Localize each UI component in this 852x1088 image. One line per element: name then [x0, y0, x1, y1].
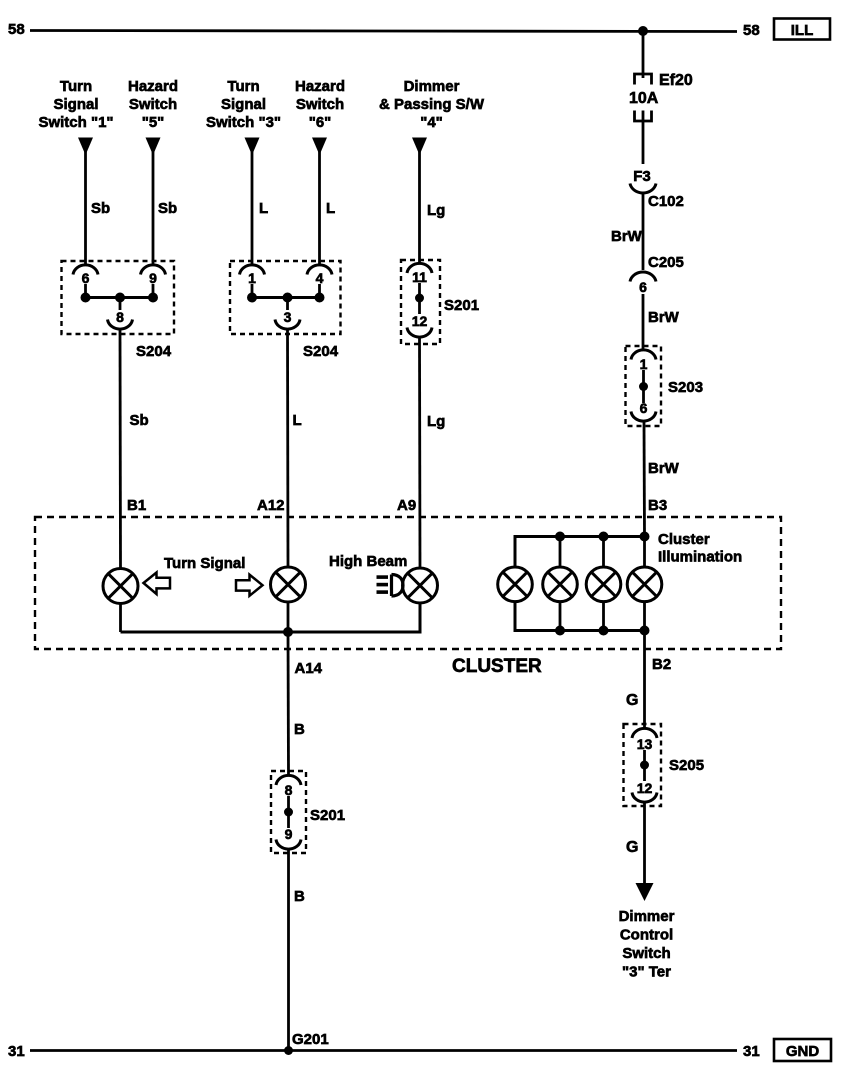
- svg-text:Control: Control: [620, 927, 673, 944]
- svg-text:6: 6: [82, 270, 90, 286]
- svg-text:A12: A12: [257, 497, 285, 514]
- wire bottom rail 31: [30, 1049, 737, 1052]
- svg-text:S204: S204: [136, 343, 172, 360]
- lamp illumination 4: [627, 567, 662, 602]
- svg-text:Switch: Switch: [129, 96, 177, 113]
- svg-text:Hazard: Hazard: [295, 78, 345, 95]
- svg-text:Turn: Turn: [227, 78, 259, 95]
- svg-text:C102: C102: [648, 193, 684, 210]
- svg-text:BrW: BrW: [648, 460, 680, 477]
- svg-text:12: 12: [412, 313, 428, 329]
- wire S205 to dimmer switch label G: [626, 804, 645, 887]
- svg-text:S205: S205: [669, 757, 704, 774]
- CLUSTER dashed box: [35, 517, 781, 649]
- junction A14: [283, 627, 293, 637]
- svg-text:1: 1: [248, 270, 256, 286]
- arrow into wire col1: [78, 138, 93, 156]
- svg-text:B1: B1: [127, 497, 146, 514]
- svg-text:31: 31: [743, 1043, 760, 1060]
- wire col2 label Sb: [153, 150, 177, 264]
- svg-text:31: 31: [8, 1043, 25, 1060]
- wire illumination bottom bus: [515, 602, 645, 631]
- header Turn Signal Switch 1: [38, 78, 113, 131]
- connector S204 right: [230, 261, 341, 360]
- label Cluster Illumination: [658, 531, 742, 566]
- junction dots top bus: [555, 532, 650, 542]
- svg-text:Sb: Sb: [91, 200, 110, 217]
- svg-text:G: G: [626, 839, 638, 856]
- svg-text:S204: S204: [303, 343, 339, 360]
- svg-text:G: G: [626, 692, 638, 709]
- svg-text:"3" Ter: "3" Ter: [622, 964, 671, 981]
- wire bottom link bus: [121, 603, 421, 632]
- svg-text:Illumination: Illumination: [658, 549, 742, 566]
- svg-text:F3: F3: [633, 168, 651, 185]
- svg-text:Sb: Sb: [130, 412, 149, 429]
- lamp high beam: [403, 568, 438, 603]
- connector C102 pin F3: [630, 168, 656, 193]
- wire S203 to cluster labels BrW B3: [644, 422, 680, 537]
- svg-text:Lg: Lg: [427, 202, 445, 219]
- wire col5 label Lg: [420, 150, 446, 264]
- wire B2 to S205 labels B2 G: [626, 631, 671, 729]
- svg-text:13: 13: [637, 736, 653, 752]
- header Hazard Switch 6: [295, 78, 345, 131]
- svg-text:Switch "3": Switch "3": [206, 114, 281, 131]
- icon high beam: [377, 575, 404, 597]
- svg-text:3: 3: [284, 309, 292, 325]
- svg-text:6: 6: [639, 279, 647, 295]
- svg-text:A9: A9: [397, 497, 416, 514]
- svg-text:"5": "5": [142, 114, 165, 131]
- svg-text:Turn Signal: Turn Signal: [164, 555, 245, 572]
- net GND box: [774, 1039, 831, 1061]
- svg-text:L: L: [293, 412, 302, 429]
- svg-text:58: 58: [8, 21, 25, 38]
- svg-text:Cluster: Cluster: [658, 531, 710, 548]
- wire col4 label L: [320, 150, 336, 264]
- junction on rail: [638, 26, 648, 36]
- arrow into wire col2: [146, 138, 161, 156]
- label Dimmer Control Switch 3 Ter: [619, 908, 675, 981]
- svg-text:B3: B3: [648, 497, 667, 514]
- svg-text:Signal: Signal: [53, 96, 98, 113]
- junction dots bottom bus: [555, 626, 650, 636]
- svg-text:Turn: Turn: [60, 78, 92, 95]
- svg-text:BrW: BrW: [611, 228, 643, 245]
- svg-text:Lg: Lg: [427, 413, 445, 430]
- arrow into wire col4: [312, 138, 327, 156]
- svg-text:Hazard: Hazard: [128, 78, 178, 95]
- lamp illumination 3: [586, 567, 621, 602]
- svg-text:& Passing S/W: & Passing S/W: [379, 96, 485, 113]
- svg-text:4: 4: [316, 270, 324, 286]
- svg-text:Signal: Signal: [221, 96, 266, 113]
- svg-text:Switch "1": Switch "1": [38, 114, 113, 131]
- splice connector S201 top: [401, 260, 479, 344]
- svg-text:A14: A14: [295, 660, 323, 677]
- wire C102 to C205 label BrW: [611, 193, 684, 271]
- wire A14 to S201 bottom labels A14 B: [288, 632, 323, 775]
- svg-text:CLUSTER: CLUSTER: [452, 656, 542, 677]
- svg-text:58: 58: [743, 22, 760, 39]
- wire illumination top bus: [515, 537, 645, 568]
- wire S201 top to cluster labels Lg A9: [397, 339, 445, 569]
- svg-text:Switch: Switch: [296, 96, 344, 113]
- lamp illumination 1: [498, 567, 533, 602]
- svg-text:GND: GND: [786, 1043, 820, 1060]
- wire illum risers: [560, 537, 645, 631]
- wire top rail 58: [30, 31, 737, 32]
- splice connector S203: [626, 346, 704, 426]
- svg-text:ILL: ILL: [791, 22, 814, 39]
- svg-text:"6": "6": [309, 114, 332, 131]
- svg-text:B: B: [294, 721, 305, 738]
- wire S201 bottom to ground label B G201: [289, 850, 329, 1051]
- header Hazard Switch 5: [128, 78, 178, 131]
- svg-text:1: 1: [640, 356, 648, 372]
- header Turn Signal Switch 3: [206, 78, 281, 131]
- svg-text:Sb: Sb: [158, 200, 177, 217]
- svg-text:BrW: BrW: [648, 309, 680, 326]
- wire lamp left bottom: [119, 604, 122, 633]
- svg-text:12: 12: [637, 780, 653, 796]
- arrow into wire col5: [412, 138, 427, 156]
- icon arrow left: [144, 573, 171, 595]
- wire lamp right bottom: [287, 602, 290, 632]
- net ILL box: [774, 19, 830, 40]
- svg-text:Ef20: Ef20: [659, 72, 693, 89]
- wire C205 to S203 label BrW: [643, 294, 680, 350]
- svg-text:9: 9: [285, 826, 293, 842]
- svg-text:8: 8: [116, 309, 124, 325]
- arrow into wire col3: [245, 138, 260, 156]
- svg-text:6: 6: [640, 400, 648, 416]
- svg-text:11: 11: [412, 269, 427, 285]
- svg-text:B: B: [294, 888, 305, 905]
- svg-text:S201: S201: [444, 297, 479, 314]
- header Dimmer Passing SW 4: [379, 78, 485, 131]
- arrow to dimmer control switch: [636, 883, 654, 901]
- svg-text:"4": "4": [420, 114, 443, 131]
- svg-text:C205: C205: [648, 254, 684, 271]
- splice connector S205: [624, 724, 705, 806]
- lamp turn signal left: [103, 569, 138, 604]
- svg-text:S201: S201: [310, 807, 345, 824]
- junction G201: [284, 1046, 293, 1055]
- svg-text:8: 8: [285, 782, 293, 798]
- svg-text:S203: S203: [668, 379, 703, 396]
- svg-text:Switch: Switch: [622, 945, 670, 962]
- svg-text:L: L: [326, 200, 335, 217]
- splice connector S201 bottom: [271, 771, 345, 853]
- connector S204 left: [62, 261, 175, 360]
- lamp turn signal right: [271, 567, 306, 602]
- svg-text:B2: B2: [652, 656, 671, 673]
- svg-text:Dimmer: Dimmer: [404, 78, 460, 95]
- svg-text:High Beam: High Beam: [329, 553, 407, 570]
- wire col1 label Sb: [86, 150, 111, 264]
- wire col3 label L: [252, 150, 268, 264]
- fuse Ef20 10A: [629, 72, 693, 164]
- svg-text:Dimmer: Dimmer: [619, 908, 675, 925]
- connector C205 pin 6: [630, 272, 656, 295]
- wire rail to fuse: [642, 31, 645, 78]
- icon arrow right: [236, 575, 263, 596]
- svg-text:9: 9: [149, 270, 157, 286]
- svg-text:L: L: [259, 200, 268, 217]
- lamp illumination 2: [543, 567, 578, 602]
- wire S204 left to cluster labels Sb B1: [120, 331, 149, 569]
- svg-text:10A: 10A: [629, 90, 659, 107]
- svg-text:G201: G201: [292, 1031, 329, 1048]
- wire S204 right to cluster labels L A12: [257, 331, 302, 568]
